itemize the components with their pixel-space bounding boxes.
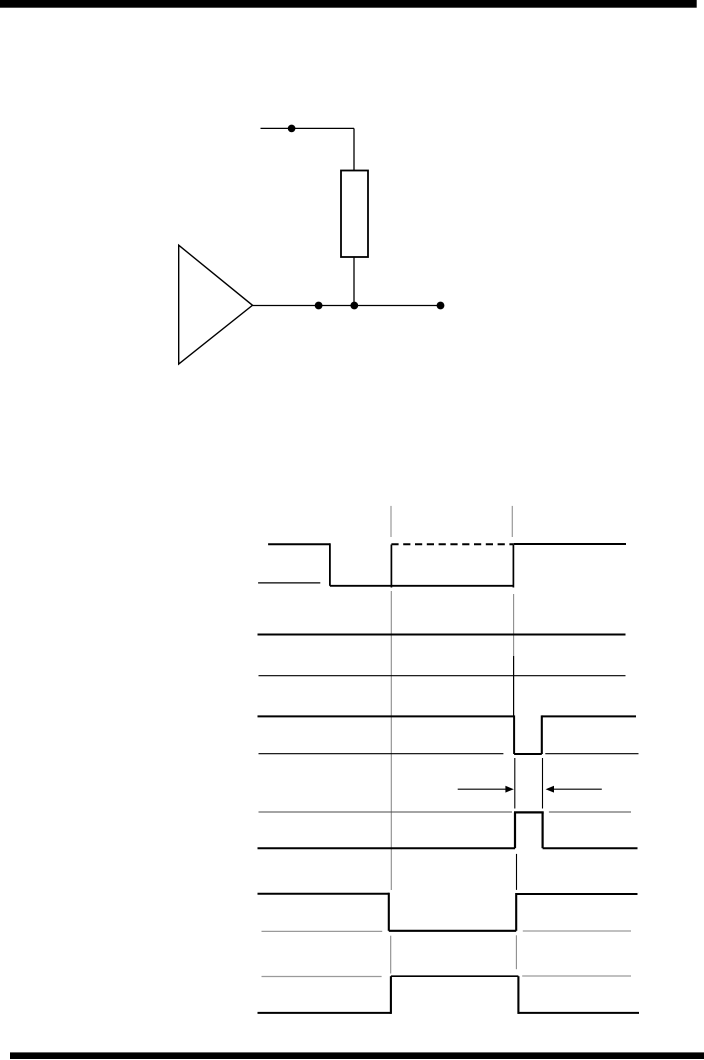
signal6 falling edge	[388, 893, 390, 931]
interval marker vertical below signal5	[516, 854, 518, 890]
resistor R1 pull-up body	[341, 171, 368, 258]
signal7 high reference right gray	[522, 975, 631, 977]
signal5 pulse left edge	[514, 812, 516, 848]
node C bus terminal dot	[437, 302, 445, 310]
signal1 rising edge at T2	[512, 545, 514, 588]
signal6 low reference right gray	[523, 930, 631, 932]
reference line T2 gray vertical middle	[513, 594, 515, 656]
reference line T1 gray vertical middle	[390, 591, 392, 890]
pulse width marker line left	[514, 758, 516, 809]
signal1 low segment	[330, 585, 514, 587]
signal1 falling edge	[329, 543, 331, 586]
signal1 low level left thin segment	[258, 582, 320, 584]
signal4 high left segment	[258, 715, 515, 717]
wire resistor bottom to output net	[353, 257, 355, 306]
buffer U1 open-drain driver triangle	[179, 245, 253, 364]
signal7 falling edge	[517, 976, 519, 1014]
footer bar	[10, 1052, 704, 1059]
signal6 rising edge	[515, 893, 517, 931]
signal1 high level left segment	[268, 543, 330, 545]
wire VCC horizontal	[261, 127, 355, 129]
edge marker T2 black vertical above row4	[513, 656, 515, 716]
wire VCC corner down to resistor	[353, 128, 355, 170]
signal4 low reference left	[259, 753, 504, 755]
signal7 high pulse segment	[391, 975, 519, 977]
signal7 rising edge	[390, 976, 392, 1014]
header bar	[0, 0, 697, 8]
signal4 high right segment	[542, 715, 636, 717]
signal1 high level right segment	[513, 543, 626, 545]
signal5 high reference right gray	[549, 811, 631, 813]
reference line T1 gray vertical lower	[390, 936, 392, 974]
signal6 high left segment	[258, 893, 389, 895]
arrow left shaft	[458, 788, 507, 790]
signal4 rising edge	[541, 715, 543, 754]
signal3 level line	[259, 675, 626, 677]
node A junction dot	[315, 302, 323, 310]
reference line T2 gray vertical lower	[515, 935, 517, 969]
signal4 low pulse	[514, 753, 542, 755]
wire output net horizontal	[253, 305, 441, 307]
signal6 low segment	[389, 930, 516, 932]
signal6 low reference left gray	[262, 930, 383, 932]
signal4 falling edge	[513, 715, 515, 754]
signal7 high reference left gray	[262, 976, 382, 978]
node VCC dot	[288, 125, 296, 133]
pulse width marker line right	[542, 758, 544, 809]
signal1 rising edge marker at T1	[390, 545, 392, 588]
signal7 low level right	[518, 1012, 639, 1014]
node B resistor junction dot	[350, 302, 358, 310]
signal7 low level left	[258, 1012, 391, 1014]
signal5 pulse top	[514, 811, 544, 813]
arrow right shaft	[553, 788, 602, 790]
arrow left head	[505, 786, 513, 793]
signal5 pulse right edge	[541, 812, 543, 848]
signal6 high right segment	[516, 893, 637, 895]
signal5 low level left	[258, 847, 516, 849]
reference line T1 gray vertical upper	[390, 506, 392, 537]
signal4 low reference right	[545, 753, 638, 755]
reference line T2 gray vertical upper	[511, 506, 513, 537]
signal1 dashed high alternative	[391, 543, 513, 545]
signal5 low level right	[543, 847, 638, 849]
arrow right head	[546, 786, 554, 793]
signal5 high reference left gray	[259, 811, 513, 813]
signal2 level line	[258, 634, 626, 636]
